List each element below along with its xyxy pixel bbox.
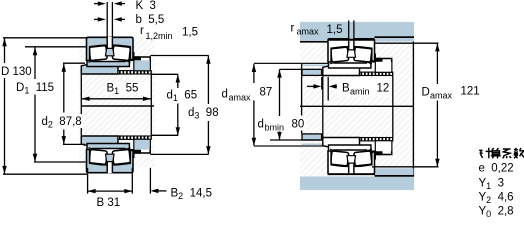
housing bore contact line over bearing OD (top) (328, 39, 376, 41)
bearing upper half (right, outline) (323, 38, 393, 75)
svg-text:Y1 3: Y1 3 (479, 178, 504, 192)
housing top band (blue) (300, 22, 414, 41)
bearing lower half (left, mirrored) (81, 136, 151, 173)
dimension B2 14,5 (149, 168, 151, 194)
svg-text:d1 65: d1 65 (167, 90, 198, 104)
shaft sliver top (blue) (302, 64, 329, 66)
axis centerline right view (300, 105, 414, 107)
svg-text:D 130: D 130 (1, 66, 32, 78)
svg-text:B: B (342, 82, 350, 94)
svg-text:B 31: B 31 (97, 197, 121, 209)
drawing sheet texture right view (300, 21, 414, 190)
char xi (503, 149, 512, 158)
svg-text:1,5: 1,5 (327, 24, 343, 36)
svg-text:Y2 4,6: Y2 4,6 (479, 192, 514, 206)
char suan (491, 148, 501, 158)
washer tab extension lines above bearing (107, 2, 112, 37)
dimension D1 115 (25, 46, 87, 48)
svg-text:d3 98: d3 98 (188, 107, 219, 121)
shaft abutment block top (blue) (302, 69, 322, 75)
svg-text:B2 14,5: B2 14,5 (171, 188, 212, 202)
dimension d amax 87 (253, 64, 255, 83)
shaft sliver bottom (blue) (302, 144, 329, 146)
drawing sheet texture left view (79, 37, 155, 167)
bearing upper half (left) (81, 37, 151, 74)
dimension B amin 12 (321, 77, 323, 90)
svg-text:bmin: bmin (265, 123, 285, 133)
svg-text:amax: amax (430, 90, 453, 100)
calculation factors table (466, 141, 524, 221)
dimension d2 87,8 (63, 62, 85, 64)
svg-text:amax: amax (229, 92, 252, 102)
shaft line top (254, 62, 330, 64)
dimension B1 55 (82, 98, 152, 100)
dimension b 5,5 (94, 18, 125, 20)
svg-text:Y0 2,8: Y0 2,8 (479, 206, 514, 220)
washer tab lines through housing band (348, 21, 350, 39)
shaft step vertical (301, 64, 303, 134)
svg-text:1,2min: 1,2min (146, 31, 173, 41)
header 计算系数 (drawn glyphs) (479, 148, 524, 159)
svg-text:80: 80 (292, 119, 305, 131)
svg-text:d: d (258, 119, 264, 131)
dimension d1 65 (151, 73, 178, 75)
housing bottom band (blue) (300, 177, 414, 191)
dimension D amax 121 (375, 42, 439, 44)
housing right part bore line (375, 36, 415, 38)
bore edges right view (322, 76, 324, 138)
housing bore contact line (bottom) (328, 173, 376, 175)
svg-text:r: r (140, 25, 144, 37)
housing right edge (412, 42, 414, 177)
axis centerline left view (81, 105, 154, 107)
svg-text:12: 12 (377, 82, 390, 94)
char shu (514, 148, 524, 158)
svg-text:r: r (291, 23, 295, 35)
svg-text:1,5: 1,5 (182, 27, 198, 39)
svg-text:amax: amax (297, 27, 320, 37)
svg-text:d2 87,8: d2 87,8 (42, 116, 82, 130)
shaft line bottom (254, 145, 330, 147)
dimension D 130 (3, 37, 87, 39)
dimension d3 98 (150, 55, 208, 57)
svg-text:d: d (222, 89, 228, 101)
dimension B 31 (87, 168, 89, 194)
bearing lower half (right, outline mirrored) (323, 138, 393, 175)
housing left shoulder part (300, 39, 328, 42)
svg-text:121: 121 (461, 86, 480, 98)
shaft abutment block bottom (blue) (302, 134, 322, 140)
svg-text:B1 55: B1 55 (107, 83, 139, 97)
bore outline (sleeve bore rectangle) (81, 74, 151, 136)
svg-text:87: 87 (260, 87, 273, 99)
svg-text:D1 115: D1 115 (16, 82, 54, 96)
dimension d bmin 80 (280, 68, 303, 70)
dimension K 3 (94, 3, 125, 5)
svg-text:amin: amin (350, 86, 370, 96)
svg-text:e 0,22: e 0,22 (479, 163, 514, 175)
svg-text:D: D (422, 87, 430, 99)
svg-text:K 3: K 3 (136, 0, 156, 12)
char ji3 (479, 148, 492, 158)
